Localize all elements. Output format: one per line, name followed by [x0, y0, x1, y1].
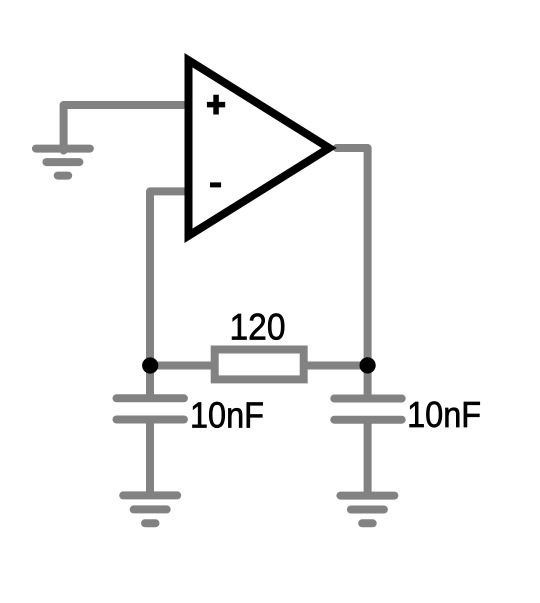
- wire: inverting input feedback: [150, 191, 189, 365]
- svg-text:10nF: 10nF: [407, 394, 481, 435]
- wire: output: [337, 148, 368, 366]
- wire: resistor to node B: [304, 362, 368, 370]
- capacitor C1: [117, 366, 184, 496]
- ground GND1: [36, 149, 90, 176]
- svg-text:10nF: 10nF: [190, 395, 264, 436]
- node A: [142, 357, 158, 373]
- wire: non-inverting input to ground: [64, 105, 189, 151]
- resistor R1: [215, 350, 304, 380]
- wire: node A to resistor: [150, 362, 214, 370]
- op-amp U1: [185, 53, 337, 243]
- ground GND2: [123, 495, 177, 523]
- ground GND3: [340, 496, 394, 524]
- capacitor C2: [334, 366, 401, 496]
- svg-text:120: 120: [230, 307, 286, 348]
- node B: [360, 357, 376, 373]
